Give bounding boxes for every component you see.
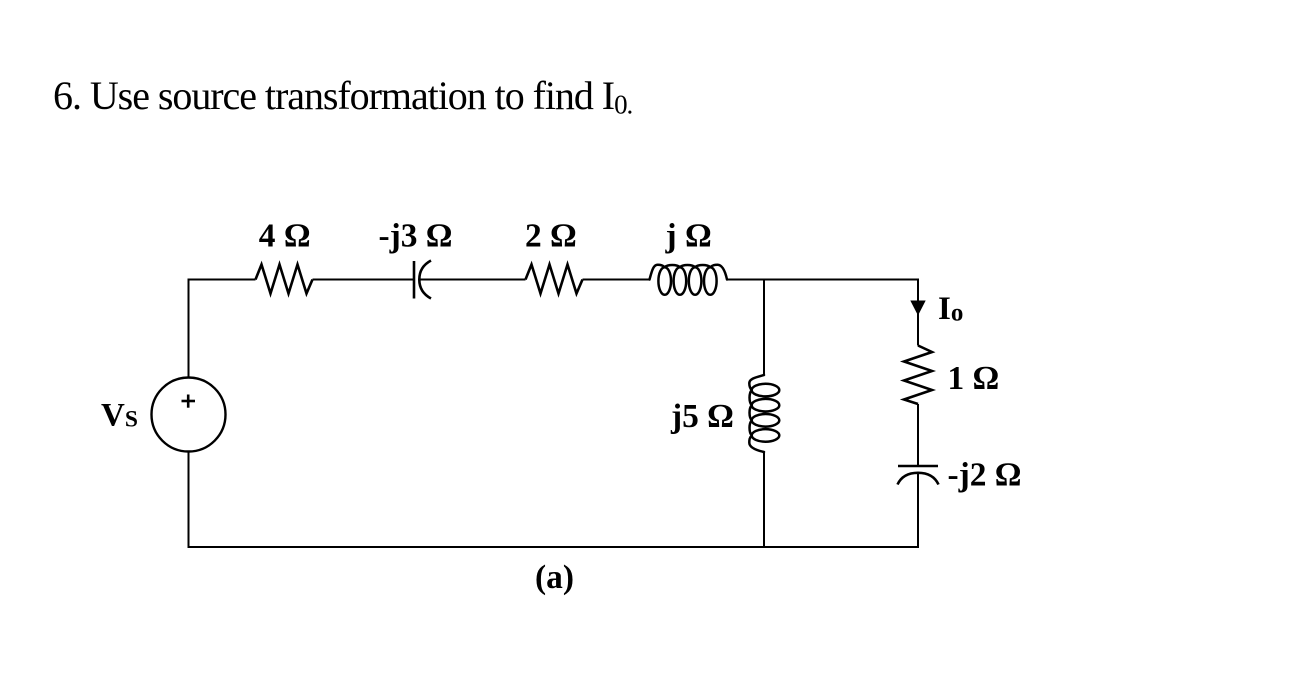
- inductor j ohm (L1) coil: [650, 265, 728, 295]
- plus sign of source: [182, 400, 196, 403]
- wire: left vertical lower: [188, 452, 190, 548]
- capacitor -j3 ohm (C1): flat left plate: [413, 261, 416, 299]
- svg-text:Io: Io: [938, 291, 963, 327]
- wire: right branch upper: [917, 279, 919, 346]
- inductor j5 ohm (L2) vertical coil: [749, 375, 779, 452]
- svg-text:-j3 Ω: -j3 Ω: [379, 218, 453, 255]
- capacitor -j2 ohm (C2): flat top plate: [898, 465, 938, 468]
- svg-text:6. Use source transformation t: 6. Use source transformation to find I0.: [53, 73, 632, 120]
- wire: R3 to capacitor C2: [917, 404, 919, 466]
- svg-text:4 Ω: 4 Ω: [259, 218, 311, 255]
- wire: bottom rail: [188, 546, 920, 548]
- svg-text:-j2 Ω: -j2 Ω: [948, 457, 1022, 494]
- svg-text:(a): (a): [535, 559, 574, 596]
- resistor 4 ohm (R1): [256, 265, 313, 294]
- svg-text:VS: VS: [101, 398, 138, 434]
- wire: top-left segment to resistor R1: [188, 279, 256, 281]
- wire: R1 to capacitor C1: [313, 279, 414, 281]
- wire: middle branch lower: [763, 452, 765, 547]
- resistor 2 ohm (R2): [526, 265, 583, 294]
- wire: middle branch upper: [763, 279, 765, 376]
- svg-text:j Ω: j Ω: [665, 218, 712, 255]
- svg-text:j5 Ω: j5 Ω: [670, 398, 734, 435]
- svg-text:2 Ω: 2 Ω: [525, 218, 577, 255]
- capacitor -j2 ohm (C2): curved bottom plate: [898, 473, 939, 485]
- wire: R2 to inductor L1: [583, 279, 651, 281]
- current arrow Io: [910, 301, 925, 316]
- wire: L1 to top-right corner through middle node: [727, 279, 918, 281]
- wire: C1 to resistor R2: [420, 279, 526, 281]
- capacitor -j3 ohm (C1): curved right plate: [419, 261, 431, 299]
- wire: right branch lower: [917, 473, 919, 547]
- voltage source Vs circle: [152, 378, 226, 452]
- resistor 1 ohm (R3) vertical: [904, 346, 932, 405]
- wire: left vertical upper: [188, 279, 190, 378]
- svg-text:1 Ω: 1 Ω: [948, 360, 1000, 397]
